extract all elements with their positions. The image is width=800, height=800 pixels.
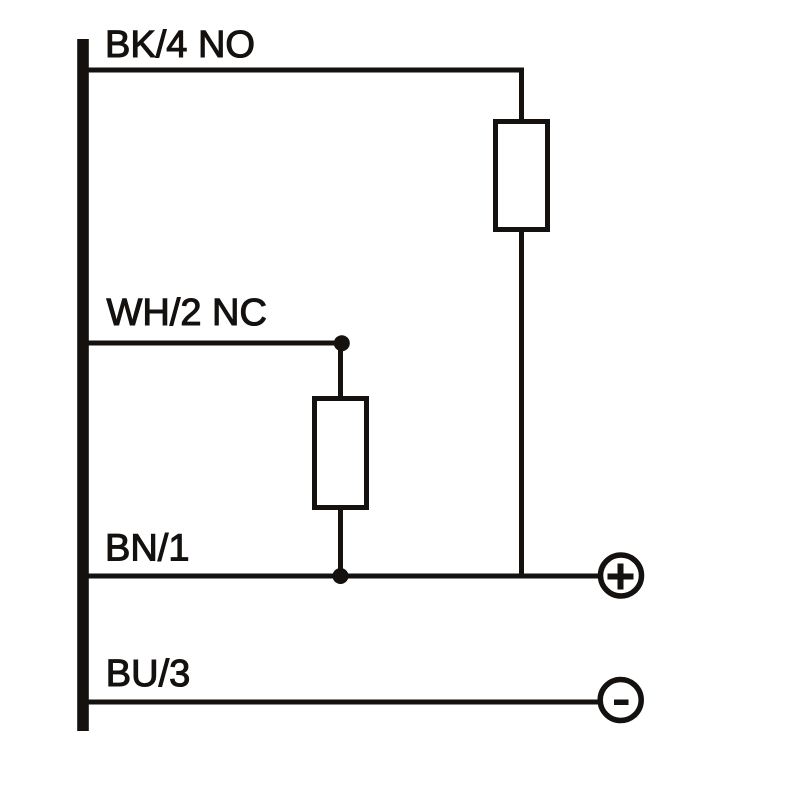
svg-text:BK/4 NO: BK/4 NO — [105, 24, 255, 66]
svg-text:BN/1: BN/1 — [105, 528, 189, 570]
svg-text:WH/2 NC: WH/2 NC — [107, 292, 267, 334]
svg-text:BU/3: BU/3 — [106, 653, 190, 695]
